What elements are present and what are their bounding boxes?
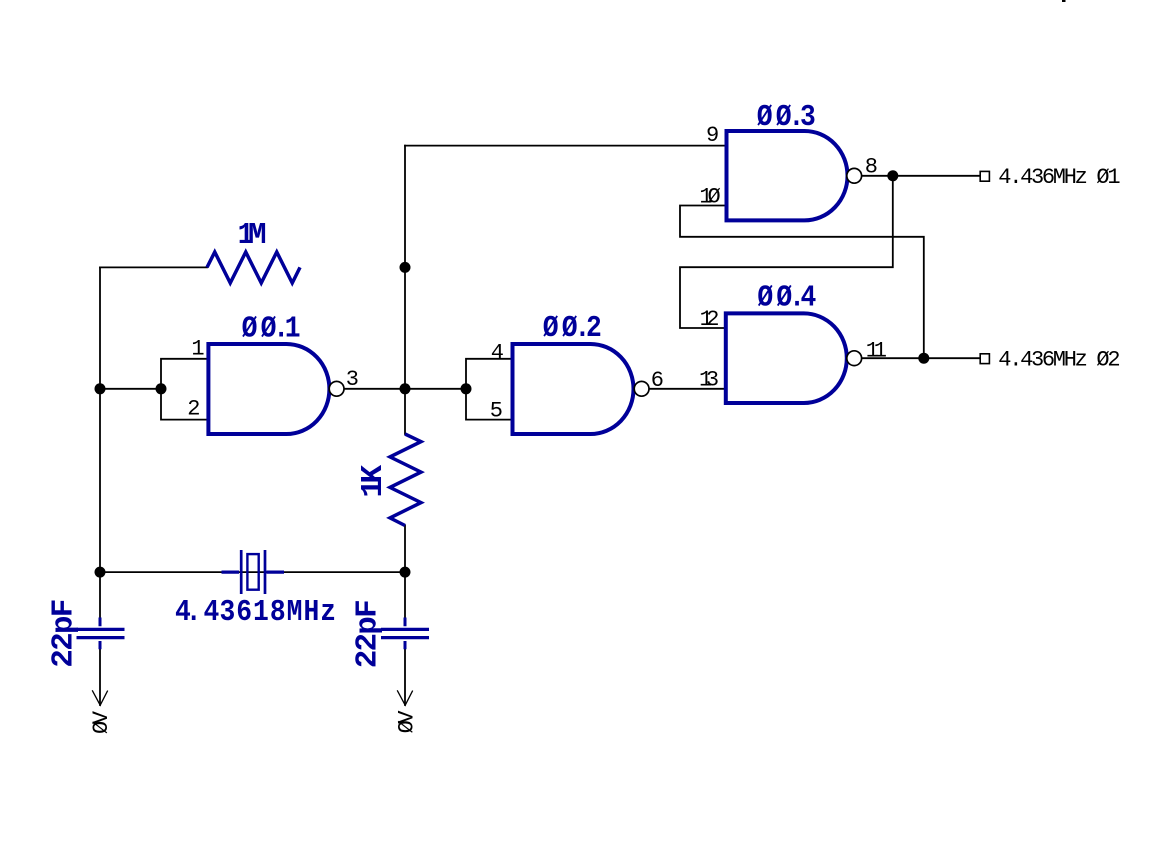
svg-text:3: 3 [219, 594, 235, 630]
wire gate1 output rail [344, 388, 466, 390]
svg-text:5: 5 [490, 399, 502, 424]
terminal square 01 [980, 171, 989, 181]
svg-text:9: 9 [706, 123, 718, 148]
gate 00.1 output bubble [329, 381, 344, 396]
junction node left rail / crystal [95, 567, 106, 578]
junction mid rail / crystal [400, 567, 411, 578]
svg-text:M: M [287, 594, 303, 630]
wire gate2 input bracket [466, 359, 513, 420]
gate 00.4 output bubble [847, 351, 862, 366]
wire feedback vertical mid rail [404, 146, 406, 434]
junction node 11 [918, 353, 929, 364]
wire node A to gate1 input bracket [100, 388, 161, 390]
svg-text:8: 8 [865, 154, 877, 179]
stray mark top edge [1062, 0, 1066, 2]
junction gate1 output / mid rail [400, 383, 411, 394]
svg-text:1: 1 [253, 594, 269, 630]
svg-text:4.436MHz Ø1: 4.436MHz Ø1 [998, 165, 1120, 190]
crystal X1 stubs [222, 570, 285, 573]
capacitor C1 stubs [99, 618, 102, 650]
wire gate4 output to terminal 02 [862, 357, 980, 359]
wire 1K bottom to crystal node [404, 526, 406, 573]
junction gate1 bracket [156, 383, 167, 394]
wire top rail to gate3 pin9 [405, 145, 726, 147]
wire 1M left to left rail [100, 266, 207, 268]
svg-text:H: H [303, 594, 319, 630]
svg-text:3: 3 [800, 99, 816, 135]
svg-text:Ø: Ø [757, 280, 773, 316]
terminal square 02 [980, 354, 989, 364]
svg-text:4: 4 [204, 594, 220, 630]
ground arrow right [397, 690, 413, 705]
wire left cap to ground [99, 649, 101, 705]
svg-text:6: 6 [651, 368, 663, 393]
junction 1M right / mid rail [400, 262, 411, 273]
wire gate3 output to terminal 01 [862, 175, 980, 177]
svg-text:Ø: Ø [242, 311, 258, 347]
junction gate2 bracket [461, 383, 472, 394]
svg-text:.: . [186, 594, 202, 630]
NAND gate 00.3 body [727, 131, 848, 220]
svg-text:M: M [248, 218, 267, 253]
svg-text:22pF: 22pF [351, 601, 386, 668]
svg-text:2: 2 [586, 310, 602, 346]
wire gate3 pin10 cross-couple to node11 [680, 206, 924, 359]
svg-text:22pF: 22pF [46, 600, 81, 667]
wire gate1 input bracket [161, 359, 208, 420]
resistor 1M [207, 252, 300, 283]
svg-text:1: 1 [285, 311, 301, 347]
svg-text:z: z [320, 594, 336, 630]
ground arrow left [92, 690, 108, 705]
svg-text:2: 2 [706, 307, 718, 332]
svg-text:4: 4 [801, 280, 817, 316]
crystal X1 plates [241, 550, 265, 594]
capacitor C1 22pF plates [77, 629, 125, 637]
svg-text:3: 3 [706, 368, 718, 393]
wire node8 cross-couple to gate4 pin12 [680, 176, 893, 328]
svg-text:8: 8 [270, 594, 286, 630]
resistor 1K [390, 434, 421, 526]
svg-text:3: 3 [346, 367, 358, 392]
svg-text:1K: 1K [356, 464, 391, 497]
NAND gate 00.4 body [726, 313, 847, 403]
svg-text:2: 2 [187, 397, 199, 422]
NAND gate 00.2 body [513, 344, 634, 434]
gate 00.2 output bubble [634, 381, 649, 396]
wire crystal rail [100, 571, 405, 573]
svg-text:Ø: Ø [757, 99, 773, 135]
NAND gate 00.1 body [208, 344, 329, 434]
wire gate2 output to gate4 pin13 [649, 388, 726, 390]
svg-text:Ø: Ø [543, 310, 559, 346]
wire right cap vertical [404, 572, 406, 705]
gate 00.3 output bubble [847, 168, 862, 183]
junction node 8 [887, 170, 898, 181]
junction node A (left rail / gate1 input) [95, 383, 106, 394]
svg-text:6: 6 [236, 594, 252, 630]
svg-text:4.436MHz Ø2: 4.436MHz Ø2 [998, 347, 1119, 372]
capacitor C2 stubs [404, 618, 407, 650]
crystal X1 body rect [247, 554, 258, 590]
wire left rail vertical [99, 267, 101, 618]
capacitor C2 22pF plates [381, 629, 429, 637]
